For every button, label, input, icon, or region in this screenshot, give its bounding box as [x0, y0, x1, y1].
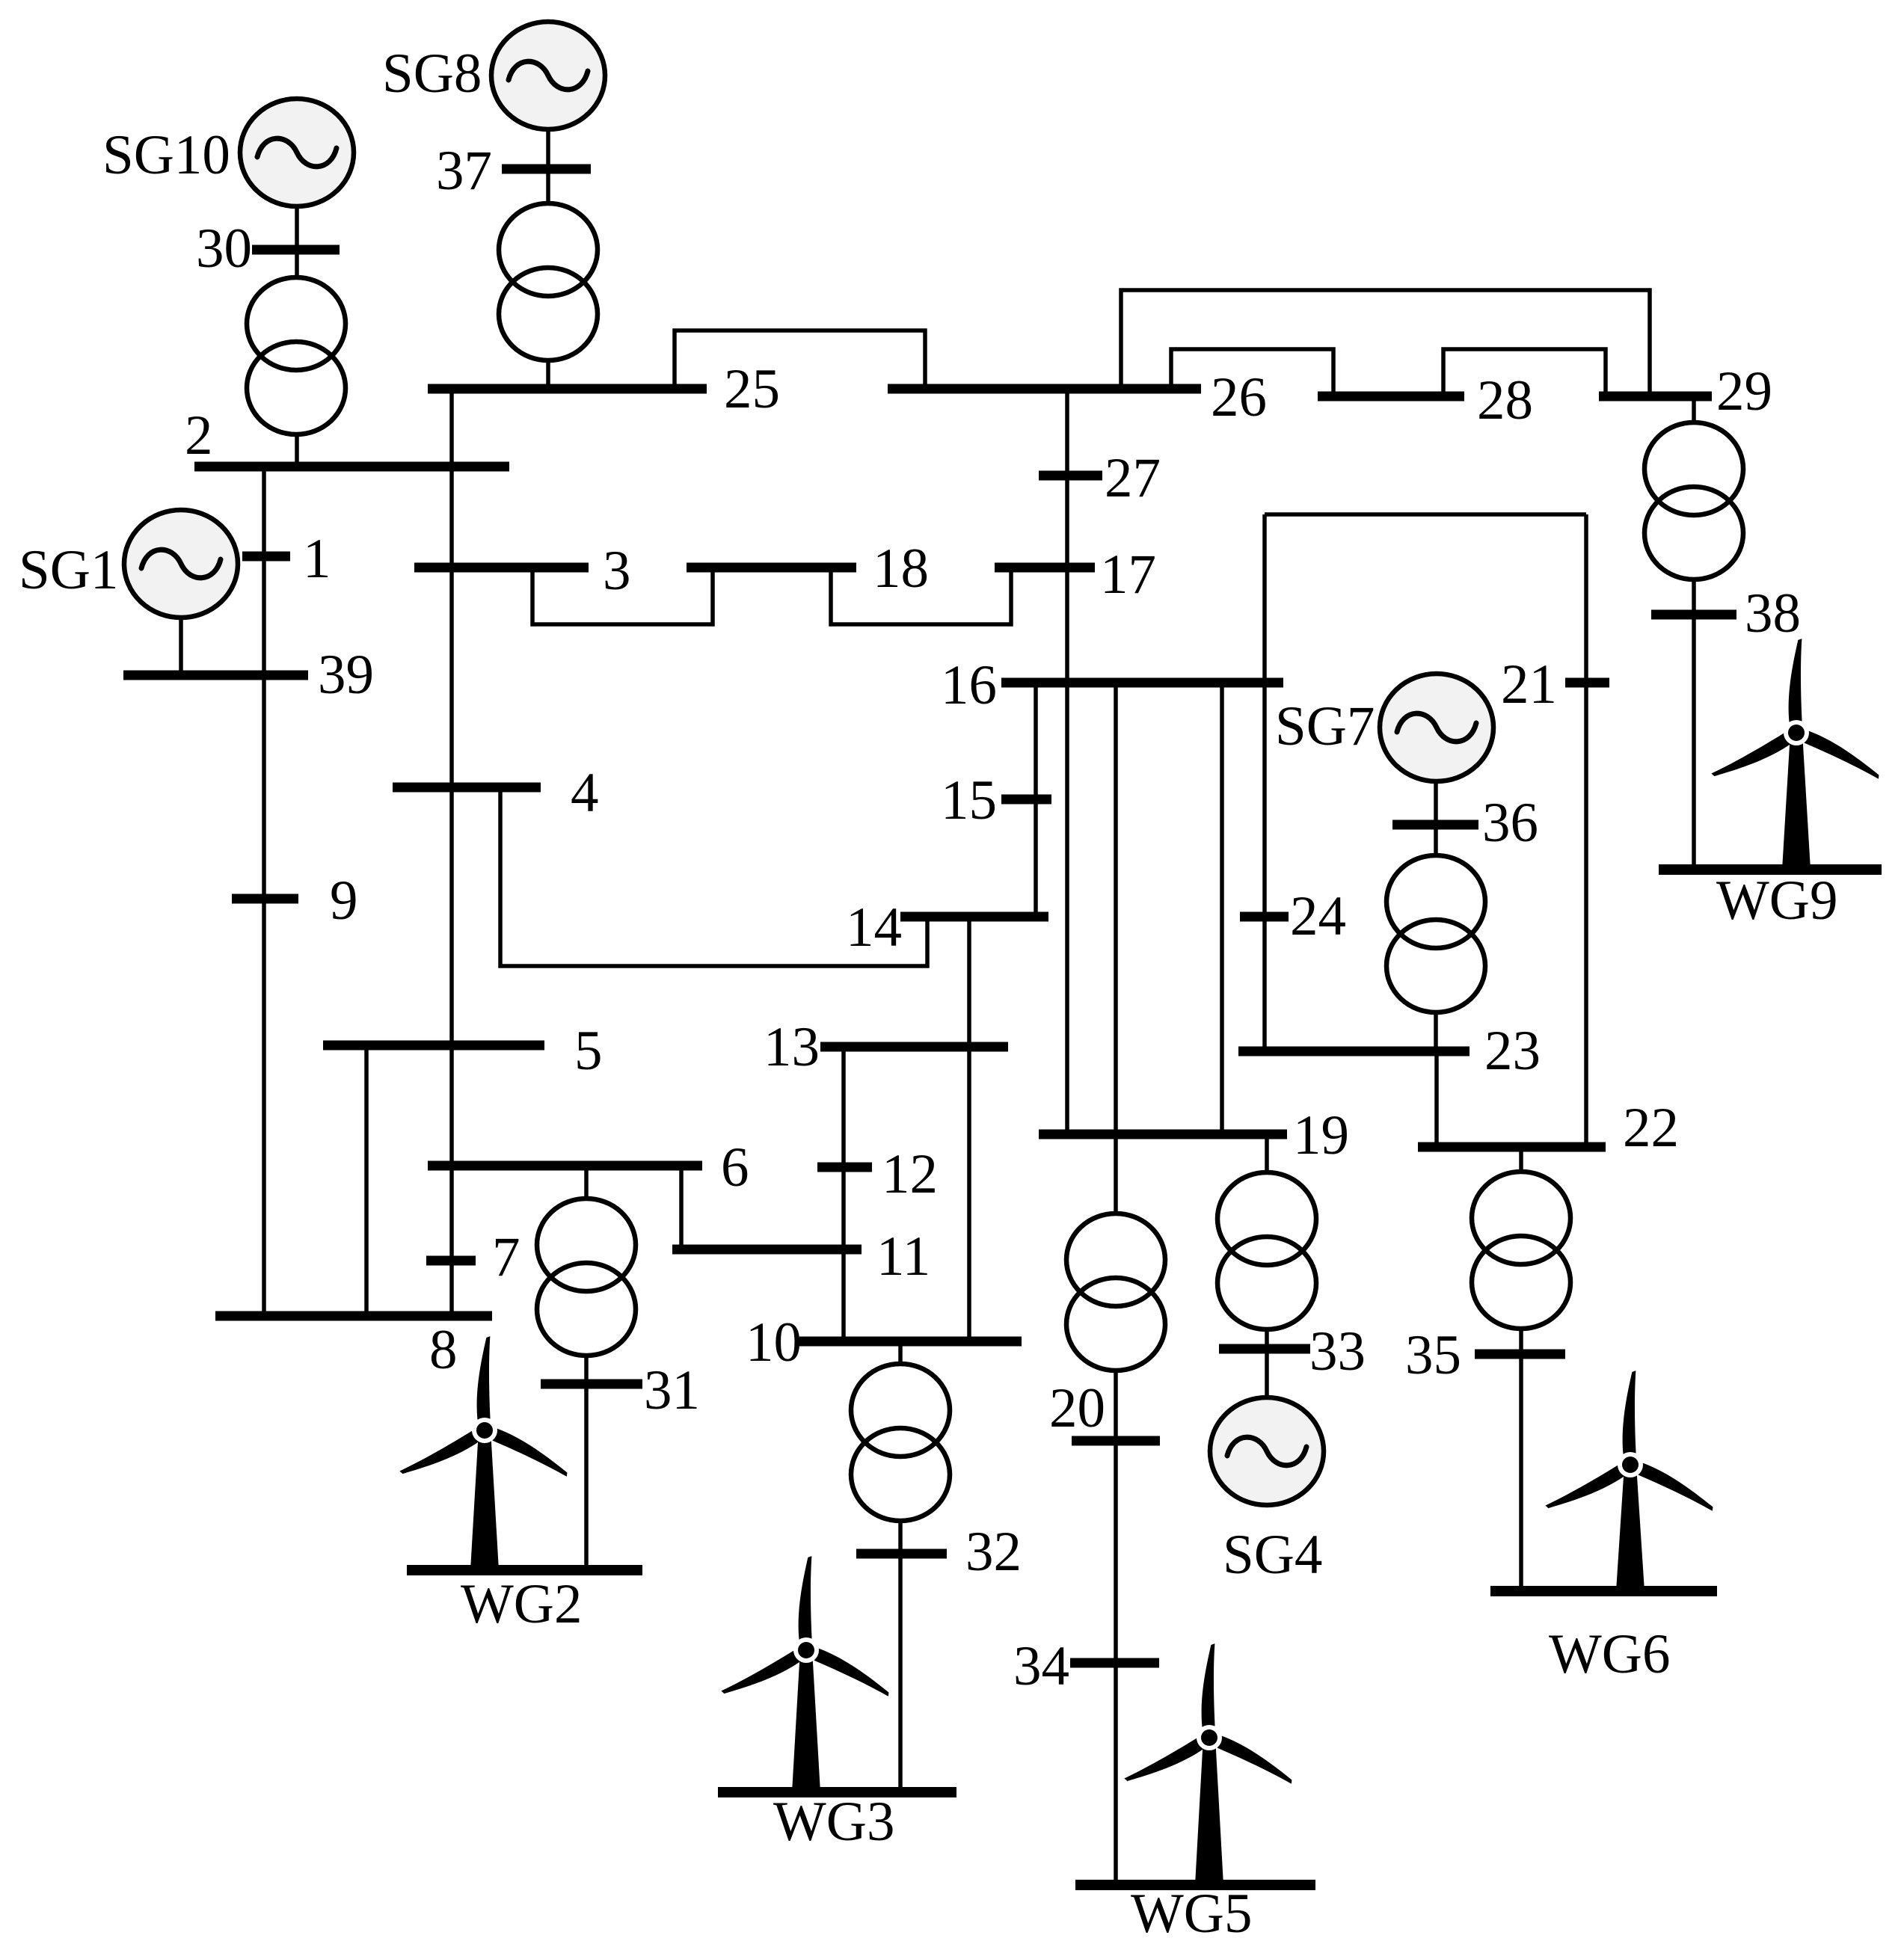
wire loop right 21-22: [1584, 514, 1588, 1147]
bus 28: [1318, 369, 1533, 431]
svg-text:6: 6: [721, 1137, 749, 1199]
svg-text:18: 18: [873, 538, 929, 600]
wind turbine WG6 icon: [1544, 1371, 1718, 1591]
svg-text:39: 39: [318, 644, 374, 706]
transformer T37-25: [499, 203, 598, 360]
wire bus22-35-WG6 chain: [1519, 1147, 1523, 1591]
wire bus16 to bus19 (right): [1220, 683, 1224, 1134]
svg-text:5: 5: [574, 1020, 603, 1082]
svg-text:WG9: WG9: [1716, 870, 1837, 932]
svg-text:SG10: SG10: [102, 124, 230, 186]
bus 35: [1405, 1324, 1565, 1386]
WG9 base bar: [1659, 864, 1882, 875]
bus 24: [1240, 885, 1346, 947]
wire bus25 to bus2 and down to bus8: [449, 389, 454, 1316]
wire bus26 to bus29 line: [1121, 290, 1650, 396]
svg-text:24: 24: [1290, 885, 1346, 947]
bus 31: [541, 1359, 700, 1421]
svg-text:30: 30: [196, 218, 252, 280]
bus 36: [1392, 792, 1538, 854]
svg-text:10: 10: [746, 1311, 802, 1374]
wind turbine WG9 icon: [1710, 639, 1884, 870]
wire bus26-27-17-16-19: [1065, 389, 1069, 1134]
bus 26: [888, 366, 1267, 428]
wire bus13 to bus10: [841, 1047, 846, 1341]
bus 11: [672, 1225, 930, 1288]
WG6 base bar: [1490, 1586, 1717, 1596]
generator SG8: [382, 22, 605, 129]
transformer T36-23: [1386, 855, 1485, 1012]
wire bus6-31-WG2 chain: [584, 1166, 589, 1570]
wire bus10-32-WG3 chain: [898, 1341, 903, 1792]
bus 14: [846, 896, 1048, 959]
bus 2: [185, 405, 509, 467]
wire 1-2-39 (bus2 to bus8 vertical): [262, 467, 266, 1316]
transformer T10-32: [851, 1364, 950, 1521]
svg-text:WG2: WG2: [461, 1573, 582, 1635]
bus 7: [426, 1226, 520, 1288]
svg-text:16: 16: [941, 654, 997, 716]
bus 12: [817, 1143, 938, 1205]
bus 21: [1501, 653, 1609, 716]
transformer T29-38: [1644, 422, 1743, 579]
wire SG7-36-23 chain: [1434, 781, 1438, 1051]
bus 38: [1651, 582, 1801, 645]
bus 39: [123, 644, 374, 706]
bus 32: [856, 1521, 1022, 1583]
bus 4: [393, 762, 599, 824]
wire bus6 to bus11: [679, 1166, 684, 1249]
transformer T19-20: [1066, 1214, 1165, 1371]
svg-text:3: 3: [603, 540, 631, 602]
wire bus25 to bus26 jumper: [675, 330, 925, 389]
svg-text:20: 20: [1049, 1377, 1105, 1439]
svg-text:38: 38: [1745, 582, 1801, 645]
wire SG1 to bus39: [179, 615, 183, 675]
bus 5: [323, 1020, 603, 1082]
generator SG1: [19, 510, 238, 618]
generator SG7: [1275, 674, 1493, 781]
bus 3: [414, 540, 631, 602]
bus 16: [941, 654, 1283, 716]
svg-text:32: 32: [965, 1521, 1022, 1583]
svg-text:SG4: SG4: [1223, 1524, 1322, 1586]
bus 10: [746, 1311, 1022, 1374]
svg-text:33: 33: [1309, 1320, 1366, 1382]
svg-text:SG8: SG8: [382, 43, 482, 105]
wire SG8-37-25 chain: [546, 126, 550, 389]
bus 33: [1219, 1320, 1366, 1382]
svg-text:WG3: WG3: [773, 1791, 894, 1853]
svg-text:27: 27: [1105, 447, 1161, 509]
bus 17: [995, 544, 1156, 606]
bus 1: [242, 528, 331, 590]
wire bus3 to bus18 jumper: [532, 568, 713, 624]
svg-text:WG5: WG5: [1131, 1883, 1252, 1945]
svg-text:12: 12: [882, 1143, 938, 1205]
bus 27: [1039, 447, 1161, 509]
svg-text:1: 1: [303, 528, 331, 590]
svg-text:SG7: SG7: [1275, 695, 1375, 757]
wire bus19-33-SG4 chain: [1265, 1134, 1269, 1397]
svg-text:15: 15: [941, 769, 997, 831]
wire loop left 16-24-23: [1262, 514, 1267, 1051]
WG3 base bar: [718, 1787, 956, 1797]
svg-text:35: 35: [1405, 1324, 1461, 1386]
wind turbine WG2 icon: [399, 1336, 572, 1570]
wire bus4 to bus14 link: [500, 787, 927, 966]
svg-text:21: 21: [1501, 653, 1557, 716]
wire loop top: [1265, 512, 1586, 517]
bus 19: [1039, 1104, 1349, 1166]
svg-text:7: 7: [492, 1226, 520, 1288]
wire bus16-15-14: [1034, 683, 1038, 917]
svg-text:22: 22: [1623, 1097, 1679, 1159]
bus 34: [1013, 1635, 1159, 1697]
svg-text:WG6: WG6: [1549, 1623, 1670, 1685]
wire SG10-30-2 chain: [295, 202, 299, 467]
bus 20: [1049, 1377, 1160, 1441]
bus 37: [436, 140, 591, 202]
transformer T22-35: [1472, 1172, 1570, 1329]
svg-text:34: 34: [1013, 1635, 1069, 1697]
bus 30: [196, 218, 340, 280]
generator SG4: [1210, 1397, 1324, 1586]
svg-text:36: 36: [1482, 792, 1538, 854]
svg-text:9: 9: [330, 870, 358, 932]
bus 18: [687, 538, 929, 600]
bus 15: [941, 769, 1051, 831]
wind turbine WG5 icon: [1123, 1643, 1297, 1885]
generator SG10: [102, 99, 354, 206]
transformer T19-33: [1217, 1172, 1316, 1329]
transformer T30-2: [247, 277, 346, 434]
bus 13: [764, 1016, 1008, 1078]
svg-text:13: 13: [764, 1016, 820, 1078]
wire bus16 to bus19 (middle): [1114, 683, 1118, 1134]
wire bus26 to bus28 line: [1171, 349, 1333, 396]
wire bus29-38-WG9 chain: [1692, 396, 1696, 870]
bus 6: [428, 1137, 749, 1199]
svg-text:8: 8: [429, 1319, 458, 1381]
svg-text:28: 28: [1477, 369, 1533, 431]
svg-text:17: 17: [1100, 544, 1156, 606]
svg-text:11: 11: [876, 1225, 930, 1288]
svg-text:23: 23: [1484, 1020, 1541, 1082]
bus 23: [1238, 1020, 1541, 1082]
svg-text:19: 19: [1293, 1104, 1349, 1166]
wire bus18 to bus17 jumper: [831, 568, 1011, 624]
svg-text:31: 31: [644, 1359, 700, 1421]
wire bus23 to bus22: [1434, 1051, 1439, 1147]
wind turbine WG3 icon: [720, 1556, 894, 1792]
svg-text:2: 2: [185, 405, 213, 467]
bus 9: [232, 870, 358, 932]
WG5 base bar: [1075, 1880, 1315, 1890]
WG2 base bar: [407, 1565, 642, 1575]
wire bus19-20-34-WG5 chain: [1114, 1134, 1118, 1885]
svg-text:29: 29: [1716, 360, 1772, 422]
svg-text:14: 14: [846, 896, 902, 959]
svg-text:SG1: SG1: [19, 539, 118, 601]
bus 8: [215, 1316, 492, 1381]
svg-text:26: 26: [1211, 366, 1267, 428]
transformer T6-31: [537, 1199, 636, 1356]
wire bus28 to bus29 line: [1443, 349, 1606, 396]
svg-text:4: 4: [571, 762, 599, 824]
bus 25: [428, 358, 780, 420]
wire bus5 to bus8: [364, 1045, 369, 1316]
bus 29: [1599, 360, 1772, 422]
wire bus14 to bus10: [967, 917, 971, 1341]
bus 22: [1418, 1097, 1679, 1159]
svg-text:37: 37: [436, 140, 492, 202]
svg-text:25: 25: [724, 358, 780, 420]
